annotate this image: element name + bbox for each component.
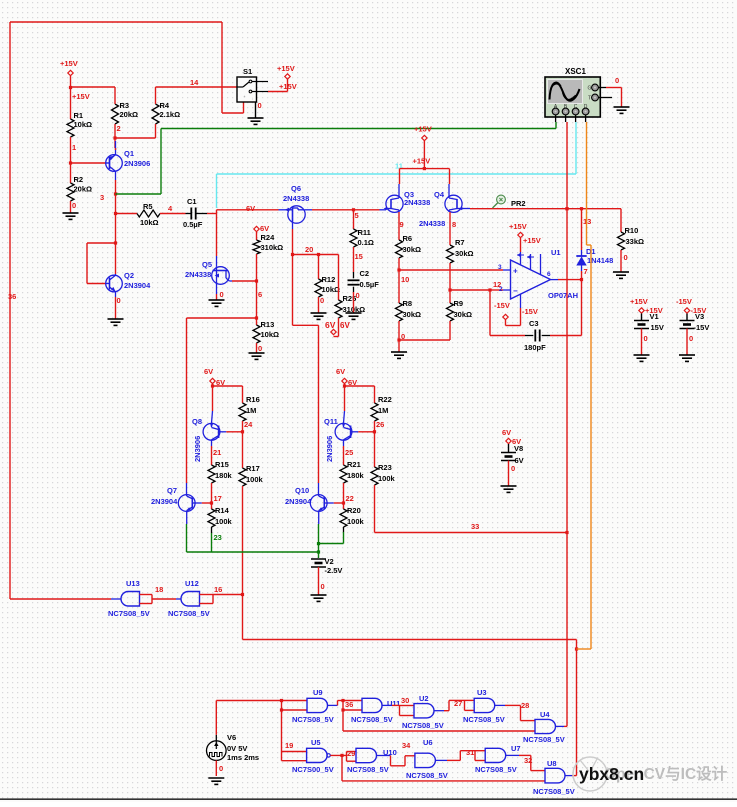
resistor R22 1M <box>371 386 392 421</box>
watermark gray text <box>604 764 728 783</box>
gate U6 NC7S08 <box>406 738 448 780</box>
transistor Q8 2N3906 <box>192 411 226 462</box>
svg-text:30: 30 <box>401 696 409 705</box>
svg-text:R10: R10 <box>625 226 639 235</box>
resistor R13 10k <box>253 320 279 343</box>
resistor R14 100k <box>208 506 233 527</box>
power 6V arrow below R25 <box>325 318 350 337</box>
node 10 wire to op-amp + input <box>399 270 503 284</box>
svg-text:Q11: Q11 <box>324 417 338 426</box>
wire U4 output up <box>556 725 568 727</box>
capacitor C2 0.5uF <box>348 269 380 292</box>
probe PR2 <box>493 195 526 208</box>
ground below R12 <box>311 313 327 319</box>
battery V1 15V <box>630 297 664 332</box>
cyan wire scope C <box>217 122 577 208</box>
svg-text:R5: R5 <box>143 202 153 211</box>
wire top-left loop from S1 to U13 net <box>10 22 244 599</box>
node 15 <box>354 247 363 272</box>
svg-text:0: 0 <box>320 296 324 305</box>
svg-text:2N4338: 2N4338 <box>185 270 211 279</box>
node 28 wire U3 output <box>495 701 530 710</box>
gate U5 NC7S00 <box>292 738 334 774</box>
svg-text:6V: 6V <box>246 204 255 213</box>
svg-text:0: 0 <box>117 296 121 305</box>
switch S1 <box>237 67 268 102</box>
svg-text:U5: U5 <box>311 738 321 747</box>
svg-text:R16: R16 <box>246 395 260 404</box>
svg-text:15: 15 <box>355 252 363 261</box>
node 21 <box>212 446 222 465</box>
battery V8 6V <box>501 428 524 465</box>
resistor R17 100k <box>239 432 264 487</box>
wire Q7 collector to node 17 <box>202 502 212 504</box>
svg-text:31: 31 <box>466 748 474 757</box>
node 24 <box>243 420 254 432</box>
green wire R20 bottom <box>319 527 344 544</box>
scope ground wire <box>606 76 622 107</box>
svg-text:1M: 1M <box>378 406 388 415</box>
svg-text:U4: U4 <box>540 710 550 719</box>
svg-text:16: 16 <box>214 585 222 594</box>
svg-text:100k: 100k <box>378 474 396 483</box>
orange wire scope D to U8 output <box>577 122 592 649</box>
svg-text:20: 20 <box>305 245 313 254</box>
svg-text:0: 0 <box>689 334 693 343</box>
svg-text:U12: U12 <box>185 579 199 588</box>
node 9 <box>399 212 404 240</box>
svg-text:+15V: +15V <box>413 157 431 166</box>
svg-text:180k: 180k <box>347 471 365 480</box>
wire node 14 to switch <box>156 78 238 87</box>
svg-text:R12: R12 <box>322 275 336 284</box>
gate U9 NC7S08 <box>292 688 334 724</box>
power +15V arrow above Q3 Q4 <box>413 125 432 171</box>
footer line <box>0 798 737 800</box>
svg-text:10: 10 <box>401 275 409 284</box>
svg-text:NC7S08_5V: NC7S08_5V <box>402 721 444 730</box>
svg-text:2: 2 <box>499 286 503 293</box>
resistor R2 20k <box>67 163 92 201</box>
svg-text:V3: V3 <box>695 312 704 321</box>
gate U4 NC7S08 <box>523 710 565 744</box>
svg-text:30kΩ: 30kΩ <box>403 310 422 319</box>
svg-text:Q10: Q10 <box>295 486 309 495</box>
ground below R10 <box>613 272 629 278</box>
svg-text:2N3906: 2N3906 <box>325 436 334 462</box>
svg-text:+15V: +15V <box>60 59 78 68</box>
svg-text:C1: C1 <box>187 197 197 206</box>
ground below scope <box>614 107 630 113</box>
svg-text:22: 22 <box>346 494 354 503</box>
svg-text:2N4338: 2N4338 <box>419 219 445 228</box>
svg-text:10kΩ: 10kΩ <box>322 285 341 294</box>
svg-text:+15V: +15V <box>630 297 648 306</box>
svg-text:20kΩ: 20kΩ <box>120 110 139 119</box>
node 34 wire U10 output <box>377 741 412 766</box>
svg-text:NC7S08_5V: NC7S08_5V <box>168 609 210 618</box>
svg-text:Q4: Q4 <box>434 190 445 199</box>
svg-text:+15V: +15V <box>277 64 295 73</box>
svg-text:↓: ↓ <box>252 96 254 101</box>
battery V3 -15V <box>676 297 709 332</box>
svg-text:0: 0 <box>258 101 262 110</box>
node 11 <box>395 162 403 171</box>
svg-text:2N4338: 2N4338 <box>404 198 430 207</box>
svg-text:R22: R22 <box>378 395 392 404</box>
node 33 wire <box>375 485 569 534</box>
svg-text:U7: U7 <box>511 744 521 753</box>
svg-text:−: − <box>513 287 518 296</box>
node 25 <box>344 446 354 465</box>
svg-text:R15: R15 <box>215 460 229 469</box>
svg-text:-15V: -15V <box>494 301 510 310</box>
svg-text:V1: V1 <box>650 312 659 321</box>
power +15V at switch <box>268 64 297 92</box>
svg-text:26: 26 <box>376 420 384 429</box>
svg-text:-2.5V: -2.5V <box>325 566 343 575</box>
svg-text:5: 5 <box>355 211 359 220</box>
svg-text:NC7S08_5V: NC7S08_5V <box>351 715 393 724</box>
svg-text:24: 24 <box>244 420 253 429</box>
wire to U2 inputs <box>400 705 415 715</box>
svg-text:2N3904: 2N3904 <box>151 497 178 506</box>
node 22 <box>342 483 354 509</box>
svg-text:NC7S08_5V: NC7S08_5V <box>406 771 448 780</box>
svg-text:+15V: +15V <box>509 222 527 231</box>
svg-text:-15V: -15V <box>694 323 710 332</box>
svg-text:21: 21 <box>213 448 221 457</box>
svg-text:0.5µF: 0.5µF <box>183 220 203 229</box>
wire to U4 input A <box>521 705 536 720</box>
wire Q11 base to node 26 <box>358 430 376 433</box>
svg-text:U9: U9 <box>313 688 323 697</box>
wire Q6 drain down to node 20 <box>291 229 294 256</box>
oscilloscope XSC1 <box>545 67 612 122</box>
node 32 wire U7 output <box>506 755 533 765</box>
battery V2 -2.5V <box>311 557 342 575</box>
main wire Q4 gate to R10 node 13 <box>470 207 621 210</box>
svg-text:PR2: PR2 <box>511 199 526 208</box>
ground below C2 <box>346 313 362 319</box>
svg-text:100k: 100k <box>246 475 264 484</box>
wire op-amp plus pin <box>498 264 511 271</box>
svg-text:R11: R11 <box>358 228 371 237</box>
svg-text:U13: U13 <box>126 579 140 588</box>
svg-text:ybx8.cn: ybx8.cn <box>579 764 644 784</box>
svg-text:R20: R20 <box>347 506 361 515</box>
node 4 <box>160 204 186 214</box>
gate U8 NC7S08 <box>533 759 575 796</box>
wire Q6 drain to Q10 base <box>293 255 319 484</box>
svg-text:G: G <box>588 86 592 92</box>
svg-text:+15V: +15V <box>523 236 541 245</box>
resistor R5 10k <box>116 202 161 227</box>
svg-text:2N3906: 2N3906 <box>124 159 150 168</box>
wire Q2 base loop <box>87 243 116 284</box>
power +15V op-amp <box>509 222 541 252</box>
wire 6V to R22 <box>345 385 375 387</box>
ground below V6 <box>208 778 224 784</box>
svg-text:-15V: -15V <box>522 307 538 316</box>
svg-text:2N3904: 2N3904 <box>124 281 151 290</box>
gate U7 NC7S08 <box>475 744 521 774</box>
node 27 wire U2 output <box>434 699 465 711</box>
svg-text:34: 34 <box>402 741 411 750</box>
node 0 under R10 <box>621 250 628 272</box>
svg-text:33kΩ: 33kΩ <box>626 237 645 246</box>
ground below V2 <box>311 595 327 601</box>
node 0 under Q2 <box>116 296 121 319</box>
svg-text:27: 27 <box>454 699 462 708</box>
wire Q5 source to R24 column <box>232 279 258 282</box>
resistor R15 180k <box>208 460 233 483</box>
wire U12 net down to bottom bus <box>243 595 579 776</box>
svg-text:R17: R17 <box>246 464 260 473</box>
ground below V8 <box>501 486 517 492</box>
source V6 pulse <box>207 733 260 762</box>
svg-text:6V: 6V <box>515 456 524 465</box>
svg-text:6V: 6V <box>260 224 269 233</box>
node 0 under R2 <box>71 201 77 213</box>
svg-text:V8: V8 <box>514 444 523 453</box>
svg-text:0: 0 <box>356 291 360 300</box>
svg-text:1M: 1M <box>246 406 256 415</box>
wire rail to U5 inputs <box>282 752 307 761</box>
svg-text:NC7S08_5V: NC7S08_5V <box>347 765 389 774</box>
svg-text:14: 14 <box>190 78 199 87</box>
svg-text:0: 0 <box>644 334 648 343</box>
green emitter wire Q10 to V2 <box>317 524 320 558</box>
svg-text:33: 33 <box>471 522 479 531</box>
svg-text:10kΩ: 10kΩ <box>74 120 93 129</box>
wire to U8 input A <box>531 755 545 770</box>
svg-text:0: 0 <box>72 201 76 210</box>
svg-text:R2: R2 <box>74 175 84 184</box>
resistor R8 30k <box>396 270 422 321</box>
wire V6 rail into U9 inputs <box>280 701 307 761</box>
svg-text:R4: R4 <box>160 101 170 110</box>
svg-text:U3: U3 <box>477 688 487 697</box>
node 0 under V6 <box>216 760 223 776</box>
feedback wire to C3 <box>490 280 582 336</box>
svg-text:Q5: Q5 <box>202 260 212 269</box>
svg-text:0: 0 <box>511 464 515 473</box>
watermark circle <box>573 757 607 791</box>
svg-text:NC7S08_5V: NC7S08_5V <box>463 715 505 724</box>
svg-text:15V: 15V <box>651 323 664 332</box>
node 1 <box>71 137 77 163</box>
svg-text:C3: C3 <box>529 319 539 328</box>
svg-text:2N4338: 2N4338 <box>283 194 309 203</box>
node 13 <box>583 217 591 226</box>
svg-text:NC7S00_5V: NC7S00_5V <box>292 765 334 774</box>
node 0 under R13 <box>257 343 263 353</box>
node 17 <box>210 483 222 509</box>
svg-text:NC7S08_5V: NC7S08_5V <box>533 787 575 796</box>
svg-text:2.1kΩ: 2.1kΩ <box>160 110 181 119</box>
svg-text:NC7S08_5V: NC7S08_5V <box>108 609 150 618</box>
node 7 <box>584 267 588 276</box>
green emitter wire Q7 <box>186 524 188 552</box>
node 20 wire <box>293 245 339 256</box>
svg-text:1ms 2ms: 1ms 2ms <box>227 753 259 762</box>
svg-text:0: 0 <box>219 764 223 773</box>
svg-text:Q7: Q7 <box>167 486 177 495</box>
power +15V arrow (left) <box>60 59 90 101</box>
node 0 ground wire under R8 R9 <box>397 321 450 342</box>
transistor Q11 2N3906 <box>324 411 358 462</box>
transistor Q5 2N4338 JFET <box>185 260 232 294</box>
svg-text:Q2: Q2 <box>124 271 134 280</box>
resistor R10 33k <box>618 209 645 250</box>
svg-text:6: 6 <box>547 271 551 278</box>
resistor R11 0.1ohm <box>350 210 374 247</box>
wire left rail to U13 <box>10 598 111 600</box>
svg-text:V6: V6 <box>227 733 236 742</box>
ground below Q5 <box>209 300 225 306</box>
wire Q8 base to node 24 <box>226 430 244 433</box>
node 12 wire to op-amp minus input <box>450 280 503 292</box>
wire op-amp output <box>551 278 584 281</box>
wire to U7 inputs <box>475 751 485 761</box>
svg-text:R3: R3 <box>120 101 130 110</box>
svg-text:Q8: Q8 <box>192 417 202 426</box>
svg-text:Q6: Q6 <box>291 184 301 193</box>
wire R7 bottom to node 12 <box>448 263 451 292</box>
node 0 under V2 <box>319 567 325 595</box>
gate U13 NC7S08 <box>108 579 152 618</box>
node 19 <box>285 741 293 750</box>
svg-text:36: 36 <box>345 700 353 709</box>
node 2 <box>117 124 121 133</box>
resistor R3 20k <box>112 87 139 124</box>
resistor R25 310k <box>335 255 365 319</box>
svg-text:R6: R6 <box>403 234 413 243</box>
node 23 green <box>212 527 222 552</box>
node 18 <box>152 585 176 599</box>
svg-text:8: 8 <box>452 220 456 229</box>
gate U12 NC7S08 <box>168 579 213 618</box>
green bus wire <box>187 551 319 553</box>
wire base Q1 <box>69 161 106 164</box>
svg-text:T: T <box>588 96 591 102</box>
resistor R20 100k <box>340 506 365 527</box>
resistor R9 30k <box>447 290 473 321</box>
svg-text:R24: R24 <box>261 233 276 242</box>
transistor Q10 2N3904 <box>285 483 334 524</box>
svg-text:6: 6 <box>258 290 262 299</box>
svg-text:R8: R8 <box>403 299 413 308</box>
svg-text:+: + <box>513 267 518 276</box>
svg-text:C2: C2 <box>360 269 370 278</box>
svg-text:28: 28 <box>521 701 529 710</box>
wire R3 to Q1 collector <box>114 124 116 148</box>
red wire scope B vertical <box>565 122 568 726</box>
node 16 <box>213 585 243 595</box>
svg-text:3: 3 <box>498 264 502 271</box>
node 30 wire U11 output <box>382 696 409 705</box>
svg-text:6V: 6V <box>325 320 336 330</box>
svg-text:R9: R9 <box>454 299 464 308</box>
node 26 <box>375 420 385 432</box>
wire 6V to R16 <box>213 385 243 387</box>
svg-text:Q1: Q1 <box>124 149 134 158</box>
green wire Q1 to scope A <box>116 122 557 194</box>
wire node 29 down to bottom bus <box>342 755 545 781</box>
power 6V arrow left block <box>204 367 225 411</box>
svg-text:0.1Ω: 0.1Ω <box>358 238 374 247</box>
node 0 under Q5 <box>217 290 224 300</box>
svg-text:30kΩ: 30kΩ <box>454 310 473 319</box>
svg-text:R23: R23 <box>378 463 392 472</box>
svg-text:30kΩ: 30kΩ <box>403 245 422 254</box>
svg-text:2N3904: 2N3904 <box>285 497 312 506</box>
svg-text:+15V: +15V <box>414 125 432 134</box>
svg-text:V2: V2 <box>325 557 334 566</box>
svg-text:NC7S08_5V: NC7S08_5V <box>292 715 334 724</box>
wire Q1 emitter down <box>115 148 117 213</box>
transistor Q1 2N3906 <box>106 141 151 180</box>
svg-text:0: 0 <box>624 253 628 262</box>
resistor R23 100k <box>371 432 396 486</box>
wire to U3 inputs <box>465 700 475 710</box>
svg-text:R7: R7 <box>455 238 465 247</box>
supply rail Q3 Q4 <box>400 169 450 184</box>
svg-text:6V: 6V <box>502 428 511 437</box>
transistor Q7 2N3904 <box>151 483 202 524</box>
svg-text:18: 18 <box>155 585 163 594</box>
svg-text:100k: 100k <box>215 517 233 526</box>
svg-text:+15V: +15V <box>72 92 90 101</box>
watermark ybx8.cn <box>579 764 644 784</box>
node 3 <box>100 192 117 202</box>
svg-text:25: 25 <box>345 448 353 457</box>
wire to U10 inputs <box>347 752 357 762</box>
node 0 under V3 <box>687 329 693 356</box>
wire to R1 <box>70 87 72 119</box>
svg-text:310kΩ: 310kΩ <box>261 243 284 252</box>
wire R6 bottom <box>397 258 400 272</box>
svg-text:0V 5V: 0V 5V <box>227 744 247 753</box>
ground below Q2 <box>108 319 124 325</box>
node 29 wire U5 output <box>330 749 355 758</box>
transistor Q6 2N4338 JFET <box>279 184 313 229</box>
svg-text:0: 0 <box>401 332 405 341</box>
svg-text:30kΩ: 30kΩ <box>455 249 474 258</box>
switch ground pin <box>248 101 264 124</box>
svg-text:180pF: 180pF <box>524 343 546 352</box>
ground below R8 <box>391 340 407 358</box>
svg-text:S1: S1 <box>243 67 252 76</box>
svg-text:R21: R21 <box>347 460 361 469</box>
svg-text:2N3906: 2N3906 <box>193 436 202 462</box>
node 31 wire U6 output <box>435 748 475 760</box>
resistor R12 10k <box>315 255 340 298</box>
svg-text:23: 23 <box>214 533 222 542</box>
svg-text:R13: R13 <box>261 320 275 329</box>
wire U8 output <box>565 775 577 777</box>
svg-text:0: 0 <box>321 582 325 591</box>
wire +15V to R3 <box>71 86 116 88</box>
transistor Q4 2N4338 JFET <box>419 184 470 228</box>
svg-text:2: 2 <box>117 124 121 133</box>
svg-text:3: 3 <box>100 193 104 202</box>
ground below V3 <box>679 355 695 361</box>
svg-text:R1: R1 <box>74 111 84 120</box>
svg-text:-15V: -15V <box>676 297 692 306</box>
diode D1 1N4148 <box>576 209 613 280</box>
